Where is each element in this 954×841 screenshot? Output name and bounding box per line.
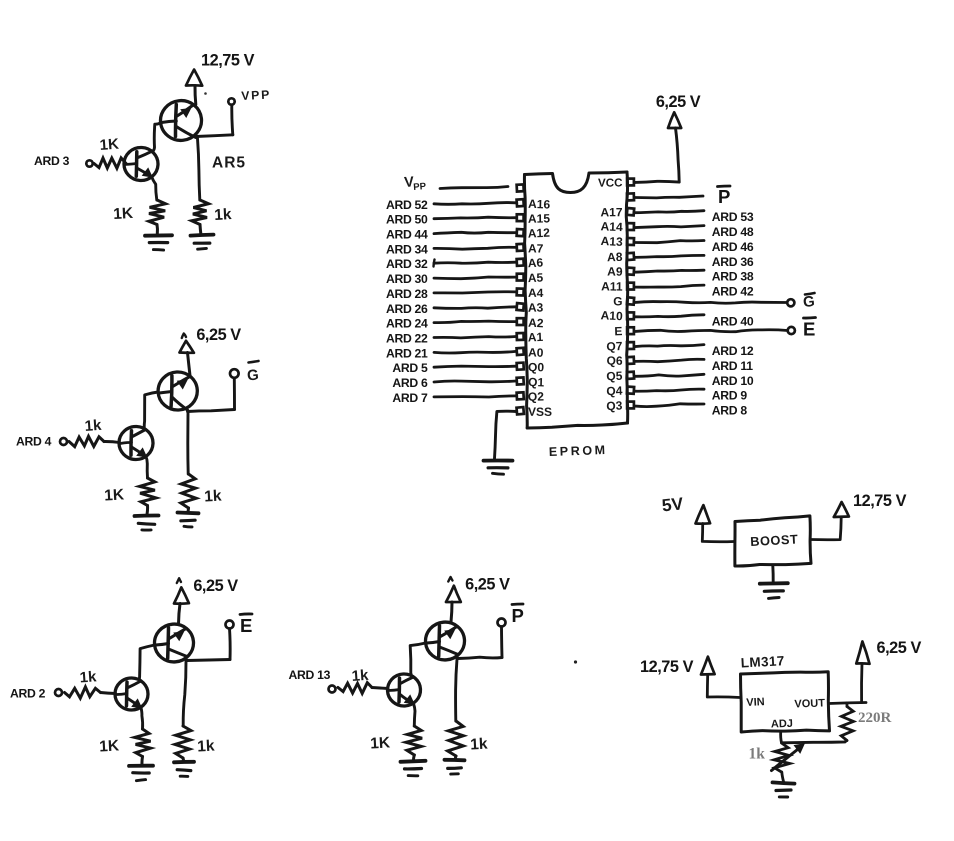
value label 1K left (Q3/Q4 G-not driver) <box>104 486 125 504</box>
resistor base 1k (Q7/Q8 P-not driver) <box>338 683 372 694</box>
label ARD 53 <box>712 210 754 224</box>
svg-text:A3: A3 <box>528 300 544 314</box>
wire resistor to ground left (Q7/Q8 P-not driver) <box>412 755 416 760</box>
label ARD 36 <box>712 255 754 269</box>
wire resistor to ground right (Q5/Q6 E-not driver) <box>182 758 186 761</box>
label Vpp pin 1 <box>404 174 427 193</box>
label 6,25 V EPROM supply <box>656 93 701 111</box>
svg-text:1k: 1k <box>749 746 766 763</box>
wire 6,25V arrow stem <box>860 664 863 703</box>
label EPROM chip name <box>549 443 608 459</box>
wire supply stem (Q5/Q6 E-not driver) <box>179 604 181 625</box>
ground VSS <box>484 461 513 475</box>
label ARD 12 <box>712 344 754 358</box>
overbar E-not output <box>240 613 252 616</box>
EPROM U1 body outline with notch <box>524 172 627 428</box>
svg-text:Q5: Q5 <box>606 369 623 384</box>
wire pin3 ARD 50 <box>434 217 516 219</box>
value label 1k base (Q5/Q6 E-not driver) <box>79 668 97 686</box>
pin label ADJ <box>771 718 793 731</box>
node 6,25 V supply label (Q5/Q6 E-not driver) <box>193 577 238 595</box>
svg-text:A5: A5 <box>528 271 544 286</box>
label G-not output <box>246 367 259 385</box>
transistor lower NPN (Q5/Q6 E-not driver) <box>115 678 149 711</box>
wire output terminal drop (Q7/Q8 P-not driver) <box>500 627 503 658</box>
label LM317 <box>740 653 785 670</box>
label ARD 52 <box>386 198 428 212</box>
svg-text:1K: 1K <box>104 486 125 504</box>
label ARD 50 <box>386 213 428 227</box>
svg-text:A14: A14 <box>600 219 623 234</box>
svg-text:ARD 34: ARD 34 <box>386 242 428 256</box>
wire emitter to resistor (Q5/Q6 E-not driver) <box>141 708 143 730</box>
label ARD 21 <box>386 346 428 360</box>
label BOOST <box>750 532 799 549</box>
wire input to base (Q3/Q4 G-not driver) <box>104 441 120 442</box>
svg-text:ARD 30: ARD 30 <box>386 272 428 286</box>
label ARD 32 <box>386 257 428 271</box>
power arrow 6,25 V (Q7/Q8 P-not driver) <box>446 577 461 602</box>
svg-text:ADJ: ADJ <box>771 718 793 731</box>
pin label VOUT <box>794 697 825 710</box>
ground BOOST <box>760 583 788 598</box>
ground right (Q5/Q6 E-not driver) <box>174 762 194 777</box>
label ARD 3 (Q1/Q2 VPP driver) <box>34 154 70 168</box>
wire pin30 ARD 10 <box>635 374 705 376</box>
svg-text:P: P <box>718 186 730 207</box>
value label 1k potentiometer <box>749 746 766 763</box>
label ARD 48 <box>712 225 754 239</box>
power arrow 6,25 V (Q3/Q4 G-not driver) <box>180 334 194 353</box>
value label 1K left (Q1/Q2 VPP driver) <box>113 205 134 223</box>
transistor upper PNP (Q1/Q2 VPP driver) <box>159 99 204 143</box>
wire pin15 ARD 7 <box>434 396 516 397</box>
svg-text:VSS: VSS <box>528 405 552 419</box>
label ARD 24 <box>386 317 428 331</box>
label ARD 13 (Q7/Q8 P-not driver) <box>289 668 331 682</box>
resistor emitter 1k (Q1/Q2 VPP driver) <box>149 200 166 225</box>
svg-text:12,75 V: 12,75 V <box>201 52 255 70</box>
wire resistor to ground right (Q7/Q8 P-not driver) <box>454 756 458 759</box>
svg-text:1k: 1k <box>351 667 369 685</box>
svg-text:A7: A7 <box>528 241 544 255</box>
wire pin14 ARD 6 <box>434 381 516 382</box>
wire VOUT node to 220R <box>845 703 848 707</box>
label ARD 6 <box>392 376 428 390</box>
wire resistor to ground left (Q5/Q6 E-not driver) <box>140 757 144 765</box>
wire VOUT to 6,25V <box>829 703 866 704</box>
output terminal (Q1/Q2 VPP driver) <box>228 98 234 104</box>
svg-text:ARD 13: ARD 13 <box>289 668 331 682</box>
svg-text:ARD 10: ARD 10 <box>712 374 754 388</box>
svg-text:ARD 46: ARD 46 <box>712 240 754 254</box>
terminal E-not EPROM <box>788 327 795 334</box>
svg-text:ARD 28: ARD 28 <box>386 287 428 301</box>
wire resistor to ground right (Q1/Q2 VPP driver) <box>199 225 203 234</box>
wire pin8 ARD 28 <box>434 292 516 293</box>
wire pin28 ARD 12 <box>635 345 705 347</box>
svg-text:A9: A9 <box>607 265 623 279</box>
wire emitter to resistor (Q7/Q8 P-not driver) <box>414 704 416 727</box>
svg-text:ARD 38: ARD 38 <box>712 270 754 284</box>
regulator LM317 U3 box <box>741 672 830 732</box>
wire input to base (Q5/Q6 E-not driver) <box>101 693 116 694</box>
svg-text:Q1: Q1 <box>528 375 545 389</box>
wire input to base (Q7/Q8 P-not driver) <box>372 688 388 689</box>
label E-not EPROM <box>803 319 815 340</box>
svg-text:A6: A6 <box>527 255 543 270</box>
wire pin22 ARD 36 <box>635 255 705 257</box>
label G-not EPROM <box>802 293 815 311</box>
wire pin25 G-not <box>635 302 788 304</box>
wire resistor to ground right (Q3/Q4 G-not driver) <box>187 508 191 512</box>
svg-text:ARD 36: ARD 36 <box>712 255 754 269</box>
stray ink mark left of ARD 32 wire <box>434 260 435 267</box>
svg-text:A13: A13 <box>600 234 623 249</box>
label ARD 4 (Q3/Q4 G-not driver) <box>16 435 52 449</box>
label 6,25 V LM317 output <box>877 639 922 657</box>
resistor emitter 1k (Q3/Q4 G-not driver) <box>140 478 157 506</box>
label 12,75 V BOOST <box>853 492 907 510</box>
svg-text:Q7: Q7 <box>606 339 623 353</box>
resistor base 1k (Q1/Q2 VPP driver) <box>94 158 126 168</box>
label ARD 34 <box>386 242 428 256</box>
svg-text:VIN: VIN <box>746 696 765 709</box>
BOOST converter U2 box <box>735 516 811 566</box>
wire pin1 Vpp <box>440 187 508 189</box>
stray ink speck near P driver <box>574 660 577 663</box>
node 6,25 V supply label (Q7/Q8 P-not driver) <box>465 576 510 594</box>
wire collector down (Q7/Q8 P-not driver) <box>456 659 457 721</box>
wire pin7 ARD 30 <box>434 277 516 279</box>
svg-text:VCC: VCC <box>598 176 623 189</box>
label P-not EPROM <box>718 186 730 207</box>
value label 220R <box>858 710 892 726</box>
svg-text:BOOST: BOOST <box>750 532 799 549</box>
overbar G-not output <box>249 361 259 363</box>
input terminal ARD 4 (Q3/Q4 G-not driver) <box>60 438 67 445</box>
wire collector down (Q3/Q4 G-not driver) <box>186 413 189 475</box>
wire collector to output (Q1/Q2 VPP driver) <box>196 135 233 137</box>
resistor collector 1k (Q7/Q8 P-not driver) <box>448 721 464 756</box>
svg-text:PP: PP <box>413 181 427 193</box>
wire ADJ stem <box>779 732 783 743</box>
value label 1K left (Q5/Q6 E-not driver) <box>99 737 120 755</box>
wire pin32 ARD 8 <box>635 404 705 407</box>
svg-text:ARD 5: ARD 5 <box>392 361 428 375</box>
wire pin6 ARD 32 <box>434 262 516 263</box>
svg-text:6,25 V: 6,25 V <box>193 577 238 595</box>
wire collector to output (Q3/Q4 G-not driver) <box>188 410 235 412</box>
value label 1k base (Q1/Q2 VPP driver) <box>99 136 119 154</box>
svg-text:ARD 22: ARD 22 <box>386 332 428 346</box>
resistor R 220R <box>841 707 854 741</box>
label ARD 38 <box>712 270 754 284</box>
svg-text:6,25 V: 6,25 V <box>877 639 922 657</box>
wire pin2 ARD 52 <box>434 203 516 205</box>
EPROM left pins 1-16 <box>517 184 524 414</box>
svg-text:ARD 52: ARD 52 <box>386 198 428 212</box>
transistor lower NPN (Q3/Q4 G-not driver) <box>118 426 153 460</box>
resistor base 1k (Q3/Q4 G-not driver) <box>69 436 104 446</box>
svg-text:G: G <box>802 293 815 311</box>
label ARD 2 (Q5/Q6 E-not driver) <box>10 687 46 701</box>
power arrow 12,75 V BOOST <box>834 502 849 517</box>
wire pin18 P-not <box>635 196 704 198</box>
ground right (Q1/Q2 VPP driver) <box>191 235 214 250</box>
input terminal ARD 3 (Q1/Q2 VPP driver) <box>86 160 92 166</box>
power arrow 5V <box>696 505 711 524</box>
label ARD 8 <box>712 404 748 418</box>
svg-text:Q4: Q4 <box>606 384 623 399</box>
svg-text:6,25 V: 6,25 V <box>196 326 241 344</box>
wire pin24 ARD 42 <box>635 285 705 287</box>
wire resistor to ground left (Q3/Q4 G-not driver) <box>146 506 150 515</box>
svg-text:ARD 12: ARD 12 <box>712 344 754 358</box>
wire pin20 ARD 48 <box>635 226 705 228</box>
EPROM left pin names A16..VSS <box>527 197 552 419</box>
svg-text:ARD 32: ARD 32 <box>386 257 428 271</box>
svg-text:EPROM: EPROM <box>549 443 608 459</box>
power arrow 6,25 V (Q5/Q6 E-not driver) <box>174 578 189 603</box>
svg-text:12,75 V: 12,75 V <box>640 658 694 676</box>
wire input to base (Q1/Q2 VPP driver) <box>125 162 127 165</box>
wire output terminal drop (Q3/Q4 G-not driver) <box>233 378 236 409</box>
svg-text:ARD 4: ARD 4 <box>16 435 52 449</box>
label ARD 28 <box>386 287 428 301</box>
wire BOOST to 12,75V <box>811 518 842 540</box>
EPROM right pins 17-32 <box>627 179 634 409</box>
wire pin12 ARD 21 <box>434 351 516 353</box>
wire pin4 ARD 44 <box>434 232 516 233</box>
value label 1k right (Q1/Q2 VPP driver) <box>214 206 232 224</box>
svg-text:ARD 3: ARD 3 <box>34 154 70 168</box>
svg-text:A1: A1 <box>528 330 544 345</box>
wire collector down (Q1/Q2 VPP driver) <box>198 139 200 201</box>
svg-text:A10: A10 <box>600 308 623 323</box>
overbar E-not EPROM <box>804 316 816 319</box>
wire 12,75V to VIN <box>707 675 740 698</box>
svg-text:VOUT: VOUT <box>794 697 825 710</box>
svg-text:G: G <box>613 294 623 308</box>
power arrow 12,75 V (Q1/Q2 VPP driver) <box>186 70 202 86</box>
svg-text:ARD 2: ARD 2 <box>10 687 46 701</box>
svg-text:G: G <box>246 367 259 385</box>
svg-text:1k: 1k <box>84 417 102 435</box>
svg-text:E: E <box>614 324 622 338</box>
transistor upper PNP (Q3/Q4 G-not driver) <box>157 371 198 411</box>
wire pin13 ARD 5 <box>434 366 516 367</box>
svg-text:A2: A2 <box>528 316 544 331</box>
resistor collector 1k (Q5/Q6 E-not driver) <box>175 726 191 758</box>
label VPP output <box>241 87 271 103</box>
svg-text:ARD 48: ARD 48 <box>712 225 754 239</box>
EPROM right pin names VCC..Q3 <box>598 176 623 413</box>
wire VSS to ground <box>495 411 517 458</box>
label 12,75 V LM317 input <box>640 658 694 676</box>
wire pin26 ARD 40 <box>635 315 705 317</box>
stray ink speck top-left <box>204 92 207 95</box>
terminal G-not EPROM <box>787 299 794 306</box>
wire base coupling (Q3/Q4 G-not driver) <box>144 392 158 428</box>
resistor emitter 1k (Q7/Q8 P-not driver) <box>406 726 422 755</box>
wire resistor to ground left (Q1/Q2 VPP driver) <box>156 225 159 235</box>
pin label VIN <box>746 696 765 709</box>
transistor lower NPN (Q1/Q2 VPP driver) <box>123 147 159 182</box>
label ARD 10 <box>712 374 754 388</box>
svg-text:AR5: AR5 <box>212 155 246 172</box>
power arrow 12,75 V LM317 <box>701 657 715 675</box>
svg-text:ARD 42: ARD 42 <box>712 285 754 299</box>
wire pin23 ARD 38 <box>635 270 705 272</box>
ground left (Q5/Q6 E-not driver) <box>129 766 153 781</box>
transistor lower NPN (Q7/Q8 P-not driver) <box>387 673 422 707</box>
svg-text:1k: 1k <box>470 736 488 754</box>
power arrow 6,25 V LM317 <box>856 642 869 664</box>
wire pin29 ARD 11 <box>635 359 705 361</box>
ground left (Q3/Q4 G-not driver) <box>135 515 159 530</box>
potentiometer R 1k <box>774 743 790 772</box>
label ARD 26 <box>386 302 428 316</box>
node 12,75 V supply label (Q1/Q2 VPP driver) <box>201 52 255 70</box>
svg-text:12,75 V: 12,75 V <box>853 492 907 510</box>
ground right (Q3/Q4 G-not driver) <box>178 513 199 527</box>
svg-text:ARD 40: ARD 40 <box>712 314 754 328</box>
svg-text:1K: 1K <box>99 737 120 755</box>
wire pin5 ARD 34 <box>434 247 516 249</box>
wire supply stem (Q7/Q8 P-not driver) <box>451 602 452 622</box>
svg-text:Q3: Q3 <box>606 398 623 413</box>
value label 1k base (Q7/Q8 P-not driver) <box>351 667 369 685</box>
wire base coupling (Q5/Q6 E-not driver) <box>139 645 154 680</box>
svg-text:ARD 50: ARD 50 <box>386 213 428 227</box>
svg-text:ARD 44: ARD 44 <box>386 228 428 242</box>
wire pin31 ARD 9 <box>635 389 705 391</box>
label ARD 30 <box>386 272 428 286</box>
input terminal ARD 13 (Q7/Q8 P-not driver) <box>329 686 336 693</box>
svg-text:A17: A17 <box>600 205 622 219</box>
svg-text:ARD 11: ARD 11 <box>712 359 753 373</box>
svg-text:ARD 7: ARD 7 <box>392 391 428 405</box>
ground LM317 <box>773 782 795 797</box>
wire supply stem (Q3/Q4 G-not driver) <box>188 353 191 376</box>
power arrow 6,25 V EPROM <box>668 112 681 128</box>
wire collector to output (Q7/Q8 P-not driver) <box>458 657 502 658</box>
svg-text:A16: A16 <box>528 197 551 212</box>
wire collector to output (Q5/Q6 E-not driver) <box>187 660 230 661</box>
value label 1k right (Q3/Q4 G-not driver) <box>204 488 222 506</box>
svg-text:1K: 1K <box>113 205 134 223</box>
svg-text:ARD 26: ARD 26 <box>386 302 428 316</box>
svg-text:A15: A15 <box>528 211 550 225</box>
output terminal (Q7/Q8 P-not driver) <box>498 619 506 627</box>
wire 5V to BOOST <box>702 524 734 542</box>
wire emitter to resistor (Q3/Q4 G-not driver) <box>146 457 148 479</box>
label P-not output <box>512 605 524 626</box>
svg-text:ARD 53: ARD 53 <box>712 210 754 224</box>
wire BOOST ground stem <box>771 566 774 584</box>
wire base coupling (Q1/Q2 VPP driver) <box>153 123 160 151</box>
value label 1k right (Q5/Q6 E-not driver) <box>197 738 215 756</box>
ground left (Q1/Q2 VPP driver) <box>145 235 172 250</box>
resistor collector 1k (Q1/Q2 VPP driver) <box>192 200 209 225</box>
svg-text:A4: A4 <box>528 286 544 300</box>
svg-text:1k: 1k <box>214 206 232 224</box>
svg-text:A11: A11 <box>601 279 623 293</box>
label ARD 22 <box>386 332 428 346</box>
svg-text:1K: 1K <box>370 734 391 752</box>
svg-text:P: P <box>512 605 524 626</box>
label 5V <box>661 493 685 515</box>
svg-text:VPP: VPP <box>241 87 271 103</box>
svg-text:220R: 220R <box>858 710 892 726</box>
ground left (Q7/Q8 P-not driver) <box>401 761 426 776</box>
wire pin27 E-not <box>635 330 788 332</box>
svg-text:Q0: Q0 <box>528 360 544 374</box>
resistor emitter 1k (Q5/Q6 E-not driver) <box>135 729 151 757</box>
svg-text:E: E <box>240 615 252 636</box>
node 6,25 V supply label (Q3/Q4 G-not driver) <box>196 326 241 344</box>
svg-text:Q6: Q6 <box>606 354 623 368</box>
wire 220R to ADJ node <box>782 741 847 743</box>
svg-text:1k: 1k <box>79 668 97 686</box>
output terminal (Q5/Q6 E-not driver) <box>226 621 234 629</box>
svg-text:5V: 5V <box>661 493 685 515</box>
label E-not output <box>240 615 252 636</box>
overbar P-not EPROM <box>718 185 731 188</box>
svg-text:ARD 21: ARD 21 <box>386 346 428 360</box>
value label 1K left (Q7/Q8 P-not driver) <box>370 734 391 752</box>
svg-text:Q2: Q2 <box>528 389 545 403</box>
svg-text:1k: 1k <box>204 488 222 506</box>
overbar P-not output <box>512 603 523 606</box>
wire pin19 ARD 53 <box>635 211 705 213</box>
svg-text:E: E <box>803 319 815 340</box>
value label 1k base (Q3/Q4 G-not driver) <box>84 417 102 435</box>
label AR5 transistor designator <box>212 155 246 172</box>
wire collector down (Q5/Q6 E-not driver) <box>183 661 186 726</box>
wire output terminal drop (Q5/Q6 E-not driver) <box>228 629 232 660</box>
label ARD 7 <box>392 391 428 405</box>
svg-text:ARD 6: ARD 6 <box>392 376 428 390</box>
wire VCC supply <box>635 128 680 183</box>
wire pin10 ARD 24 <box>434 321 516 323</box>
wire pin9 ARD 26 <box>434 307 516 309</box>
svg-text:1K: 1K <box>99 136 119 154</box>
svg-text:ARD 8: ARD 8 <box>712 404 748 418</box>
svg-text:A12: A12 <box>528 226 551 241</box>
svg-text:A8: A8 <box>607 250 623 264</box>
wire emitter to resistor (Q1/Q2 VPP driver) <box>152 177 157 201</box>
label ARD 46 <box>712 240 754 254</box>
label ARD 11 <box>712 359 753 373</box>
wire pin11 ARD 22 <box>434 337 516 338</box>
resistor collector 1k (Q3/Q4 G-not driver) <box>181 474 196 508</box>
input terminal ARD 2 (Q5/Q6 E-not driver) <box>55 689 62 696</box>
svg-text:6,25 V: 6,25 V <box>465 576 510 594</box>
label ARD 9 <box>712 389 748 403</box>
wire supply stem (Q1/Q2 VPP driver) <box>193 86 197 105</box>
label ARD 42 <box>712 285 754 299</box>
ground right (Q7/Q8 P-not driver) <box>445 760 465 774</box>
value label 1k right (Q7/Q8 P-not driver) <box>470 736 488 754</box>
transistor upper PNP (Q5/Q6 E-not driver) <box>153 622 195 663</box>
potentiometer wiper arrow <box>772 744 805 771</box>
wire pin21 ARD 46 <box>635 241 705 243</box>
svg-text:LM317: LM317 <box>740 653 785 670</box>
svg-text:1k: 1k <box>197 738 215 756</box>
overbar G-not EPROM <box>805 293 815 295</box>
